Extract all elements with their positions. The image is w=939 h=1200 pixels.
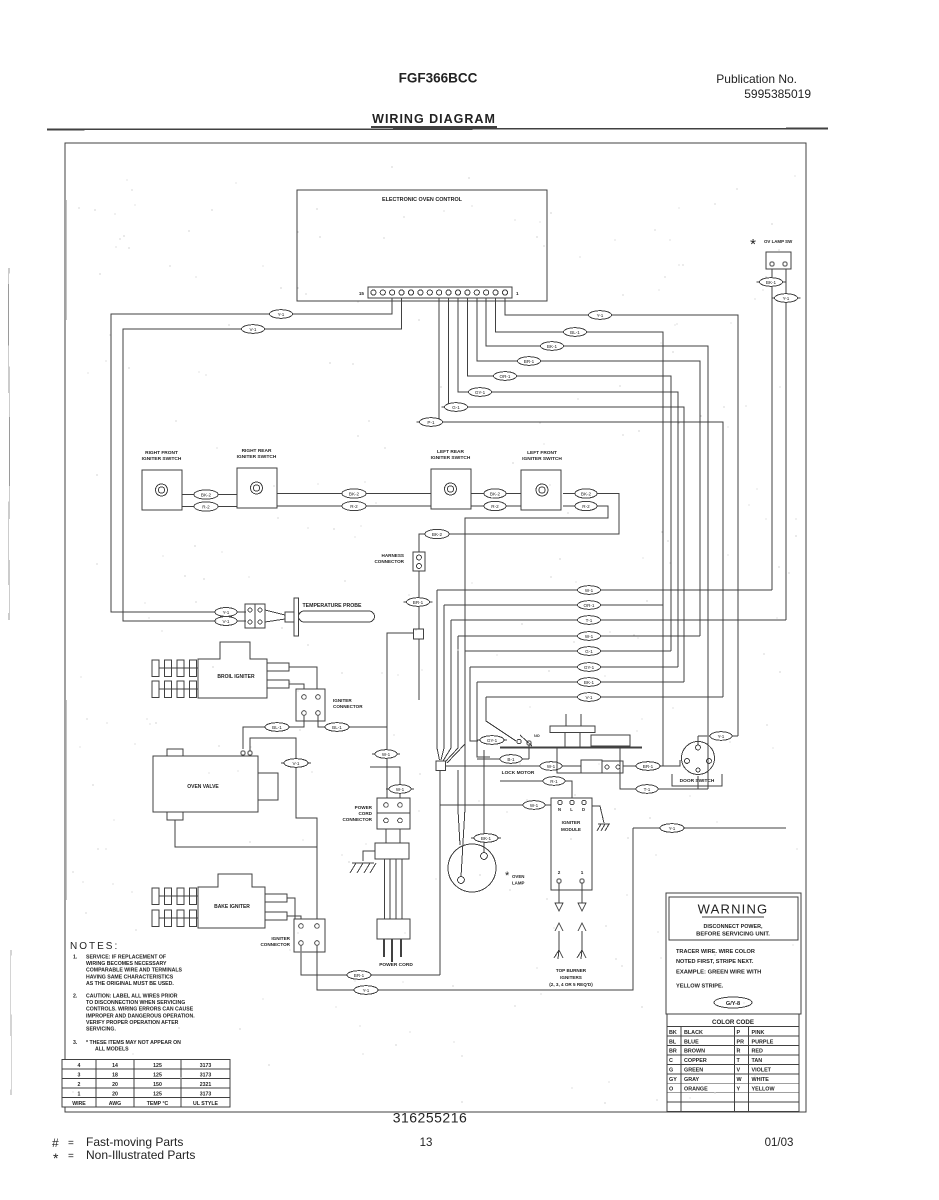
wire V-1 ladder run: [486, 696, 723, 698]
wire label G-1: [575, 647, 604, 656]
svg-text:GY-1: GY-1: [487, 738, 498, 743]
wire label BK-2: [191, 490, 221, 499]
lock switch NO contact: [517, 734, 540, 746]
svg-text:(2, 3, 4 OR 5 REQ'D): (2, 3, 4 OR 5 REQ'D): [549, 982, 593, 987]
wire W-1 ladder run: [458, 635, 700, 637]
wire W-1 ladder run: [437, 589, 772, 591]
lock motor assembly: [500, 714, 642, 776]
wire label R-2: [191, 502, 221, 511]
wire connector to strain relief: [399, 829, 401, 843]
wire Y-1 bake connector long loop: [317, 828, 633, 990]
svg-text:IGNITER: IGNITER: [333, 698, 352, 703]
wire label Y-1: [267, 310, 296, 319]
wire BR-1 capacitor to door switch: [623, 760, 680, 766]
svg-text:2.: 2.: [73, 994, 78, 1000]
svg-text:5995385019: 5995385019: [744, 87, 811, 101]
wire oven valve to bake igniter connector: [175, 820, 317, 919]
temperature probe assembly: [245, 598, 375, 636]
wire label V-1: [281, 759, 311, 768]
wire BL-1 connector to splice: [318, 715, 387, 727]
wire bake igniter lead2 to connector: [287, 916, 301, 919]
wire Y-1 EOC pin13 to temperature probe: [111, 298, 392, 612]
wire B-1 run: [477, 758, 529, 760]
wire label BR-1: [515, 357, 544, 366]
wire label BL-1: [262, 723, 292, 732]
EOC terminal strip P1 pins 15..1: [359, 287, 519, 298]
wire label R-2: [481, 501, 509, 510]
svg-text:BLACK: BLACK: [684, 1030, 703, 1036]
svg-text:L: L: [570, 807, 573, 812]
svg-text:3.: 3.: [73, 1040, 78, 1046]
svg-text:VERIFY PROPER OPERATION AFT: VERIFY PROPER OPERATION AFTER: [86, 1020, 179, 1026]
wire door switch bottom pin down: [697, 776, 699, 789]
wire label Y-1: [212, 608, 240, 617]
wire T-1 ladder run: [451, 619, 786, 621]
svg-text:OVEN: OVEN: [512, 874, 524, 879]
svg-text:AWG: AWG: [109, 1101, 121, 1107]
wire label G-1: [442, 403, 471, 412]
svg-text:IGNITER SWITCH: IGNITER SWITCH: [237, 454, 277, 460]
wire label BR-1: [344, 971, 374, 980]
wire label Y-1: [586, 311, 615, 320]
svg-text:OV LAMP SW: OV LAMP SW: [764, 239, 793, 244]
svg-text:BL-1: BL-1: [570, 330, 580, 335]
svg-text:NOTED FIRST, STRIPE NEXT.: NOTED FIRST, STRIPE NEXT.: [676, 959, 754, 965]
svg-text:BAKE IGNITER: BAKE IGNITER: [214, 904, 250, 910]
svg-text:EXAMPLE: GREEN WIRE WITH: EXAMPLE: GREEN WIRE WITH: [676, 970, 761, 976]
svg-text:Y-1: Y-1: [597, 313, 604, 318]
igniter connector (broil): [296, 689, 363, 721]
svg-text:V-1: V-1: [586, 695, 593, 700]
wire BK-1 lamp switch left pin down: [771, 269, 773, 590]
footer legend: [52, 1135, 195, 1166]
wire R-2 LF switch loop down: [465, 506, 608, 744]
igniter module: [551, 798, 592, 890]
svg-text:W-1: W-1: [585, 634, 594, 639]
svg-text:BR-1: BR-1: [524, 359, 535, 364]
svg-text:G/Y-8: G/Y-8: [726, 1001, 740, 1007]
svg-text:W-1: W-1: [585, 588, 594, 593]
svg-text:BK: BK: [669, 1030, 677, 1036]
wire R-2 LR to LF switch: [471, 505, 521, 507]
wire label Y-1: [657, 824, 687, 833]
wire BK-2 LR to LF switch: [471, 493, 521, 495]
svg-text:BR-1: BR-1: [413, 600, 424, 605]
svg-text:V: V: [737, 1068, 741, 1074]
svg-text:SERVICING.: SERVICING.: [86, 1027, 116, 1033]
harness connector: [374, 552, 425, 571]
wire BK-2 into harness connector: [419, 534, 425, 552]
wire ladder2 down to junction: [441, 605, 444, 760]
wire splice down: [418, 639, 420, 700]
warning box: [666, 893, 801, 1014]
wire broil igniter lead to connector: [289, 667, 317, 689]
svg-text:COMPARABLE WIRE AND TERMINA: COMPARABLE WIRE AND TERMINALS: [86, 968, 183, 974]
wire label BK-2: [422, 529, 452, 538]
svg-text:R: R: [737, 1049, 741, 1055]
wire bake igniter lead to connector: [287, 898, 295, 919]
wire B-1 ladder down: [477, 682, 490, 757]
svg-text:3173: 3173: [200, 1063, 212, 1069]
svg-text:POWER CORD: POWER CORD: [379, 962, 413, 968]
wire Y-1 door switch to t1 drop: [698, 735, 738, 737]
svg-text:OR-1: OR-1: [500, 374, 511, 379]
svg-text:IMPROPER AND DANGEROUS OPER: IMPROPER AND DANGEROUS OPERATION.: [86, 1013, 195, 1019]
wire ladder8 to lock switch: [486, 697, 516, 741]
wire label BK-2: [572, 489, 600, 498]
power cord connector: [342, 798, 410, 829]
svg-text:*: *: [750, 236, 756, 253]
wire label W-1: [386, 785, 414, 794]
svg-text:Y-1: Y-1: [278, 312, 285, 317]
svg-text:TAN: TAN: [752, 1058, 763, 1064]
ground at power cord: [350, 851, 376, 873]
svg-text:OVEN VALVE: OVEN VALVE: [187, 784, 219, 790]
wire label BK-1: [471, 834, 501, 843]
svg-text:ALL MODELS: ALL MODELS: [95, 1047, 129, 1053]
wire BL-1 connector to oven valve: [243, 715, 304, 749]
svg-text:DOOR SWITCH: DOOR SWITCH: [680, 778, 715, 784]
svg-text:BL-1: BL-1: [332, 725, 342, 730]
wire label V-1: [575, 693, 604, 702]
svg-text:1.: 1.: [73, 955, 78, 961]
svg-text:G-1: G-1: [585, 649, 593, 654]
svg-text:3173: 3173: [200, 1091, 212, 1097]
svg-text:Y-1: Y-1: [223, 610, 230, 615]
svg-text:C: C: [669, 1058, 673, 1064]
wire R-1 lock motor to module L: [500, 781, 572, 798]
power cord strain relief: [375, 843, 409, 859]
svg-text:GREEN: GREEN: [684, 1068, 703, 1074]
svg-text:YELLOW STRIPE.: YELLOW STRIPE.: [676, 984, 724, 990]
svg-text:Publication No.: Publication No.: [716, 72, 797, 86]
wire OR-1 EOC pin5 fan-out: [467, 298, 671, 651]
svg-text:IGNITER SWITCH: IGNITER SWITCH: [522, 456, 562, 462]
left rear igniter switch: [431, 449, 471, 509]
wire Y-1 loop to lamp switch: [633, 827, 786, 829]
svg-text:BROIL IGNITER: BROIL IGNITER: [217, 674, 255, 680]
svg-text:3173: 3173: [200, 1072, 212, 1078]
svg-text:W-1: W-1: [547, 764, 556, 769]
svg-text:BL-1: BL-1: [272, 725, 282, 730]
oven valve: [153, 749, 278, 820]
svg-text:2: 2: [558, 870, 561, 875]
notes text block: [70, 941, 195, 1053]
svg-text:BR-1: BR-1: [643, 764, 654, 769]
svg-text:BK-2: BK-2: [349, 491, 360, 496]
svg-text:V-1: V-1: [293, 761, 300, 766]
svg-text:V-1: V-1: [223, 619, 230, 624]
svg-text:01/03: 01/03: [765, 1137, 794, 1149]
oven lamp: [448, 844, 525, 892]
spark output electrode 582: [577, 883, 586, 959]
wire BK-2 RF to RR switch: [182, 494, 237, 496]
wire label W-1: [520, 801, 548, 810]
svg-text:DISCONNECT POWER,: DISCONNECT POWER,: [704, 924, 764, 930]
scan streak artifacts (decorative): [8, 268, 9, 620]
wire label BK-1: [757, 278, 786, 287]
wire ladder4 down to junction: [445, 636, 458, 762]
wire label W-1: [575, 586, 604, 595]
svg-text:Y-1: Y-1: [669, 826, 676, 831]
svg-text:COLOR CODE: COLOR CODE: [712, 1019, 754, 1026]
svg-text:POWER: POWER: [355, 805, 373, 810]
wire Y-1 EOC pin1 fan-out: [505, 298, 738, 736]
wire connector to strain relief 2: [385, 829, 387, 843]
svg-text:GY-1: GY-1: [475, 390, 486, 395]
spark output electrode 559: [554, 883, 563, 959]
svg-text:BR: BR: [669, 1049, 677, 1055]
wire label P-1: [417, 418, 446, 427]
wire label T-1: [633, 785, 661, 794]
svg-text:B-1: B-1: [507, 757, 515, 762]
svg-text:CONTROLS. WIRING ERRORS C: CONTROLS. WIRING ERRORS CAN CAUSE: [86, 1007, 194, 1013]
svg-text:Y-1: Y-1: [783, 296, 790, 301]
right front igniter switch: [142, 450, 182, 510]
splice junction square: [436, 761, 446, 771]
oven lamp switch OV LAMP SW: [750, 236, 793, 269]
svg-text:TEMP °C: TEMP °C: [147, 1101, 169, 1107]
wire label W-1: [537, 762, 565, 771]
svg-text:20: 20: [112, 1082, 118, 1088]
svg-text:=: =: [68, 1138, 74, 1149]
svg-text:Y-1: Y-1: [718, 734, 725, 739]
svg-text:AS THE ORIGINAL MUST BE U: AS THE ORIGINAL MUST BE USED.: [86, 981, 174, 987]
svg-text:P: P: [737, 1030, 741, 1036]
svg-text:PR: PR: [737, 1039, 745, 1045]
wire label Y-1: [707, 732, 735, 741]
wire BR-1 bake connector to junction: [301, 945, 440, 975]
wire label W-1: [372, 750, 400, 759]
wire label R-2: [572, 501, 600, 510]
svg-text:RIGHT FRONT: RIGHT FRONT: [145, 450, 178, 456]
svg-text:COPPER: COPPER: [684, 1058, 707, 1064]
svg-text:PINK: PINK: [752, 1030, 765, 1036]
svg-text:14: 14: [112, 1063, 118, 1069]
svg-text:13: 13: [420, 1137, 433, 1149]
svg-text:PURPLE: PURPLE: [752, 1039, 774, 1045]
wire R-2 RF to RR switch: [182, 506, 237, 508]
svg-text:BR-1: BR-1: [354, 973, 365, 978]
svg-text:TRACER WIRE. WIRE COLOR: TRACER WIRE. WIRE COLOR: [676, 949, 755, 955]
svg-text:IGNITERS: IGNITERS: [560, 975, 582, 980]
wire V-1 oven valve loop: [250, 738, 317, 847]
wire GY-1 ladder down: [470, 667, 478, 741]
right rear igniter switch: [237, 448, 277, 508]
wire BR-1 harness connector down: [418, 571, 420, 629]
svg-text:BK-2: BK-2: [201, 492, 212, 497]
wire switch to B-1 run: [528, 745, 530, 759]
svg-text:N: N: [558, 807, 561, 812]
svg-text:15: 15: [359, 291, 365, 296]
svg-text:ELECTRONIC OVEN CONTROL: ELECTRONIC OVEN CONTROL: [382, 197, 463, 203]
svg-text:O: O: [669, 1087, 673, 1093]
svg-text:IGNITER SWITCH: IGNITER SWITCH: [142, 456, 182, 462]
svg-text:BLUE: BLUE: [684, 1039, 699, 1045]
power cord plug: [377, 919, 413, 968]
svg-text:W-1: W-1: [382, 752, 391, 757]
svg-text:TOP BURNER: TOP BURNER: [556, 968, 587, 973]
header rule: [47, 129, 828, 130]
wire label GY-1: [575, 663, 604, 672]
svg-text:CONNECTOR: CONNECTOR: [333, 704, 363, 709]
wire ladder3 down to junction: [443, 620, 451, 761]
wire W-1 splice to power cord connector: [387, 633, 414, 805]
color code table: [667, 1014, 799, 1112]
svg-text:R-2: R-2: [491, 504, 499, 509]
svg-text:BK-1: BK-1: [766, 280, 777, 285]
wire BK-1 ladder run: [477, 681, 684, 683]
svg-text:Y: Y: [737, 1087, 741, 1093]
svg-text:LOCK MOTOR: LOCK MOTOR: [502, 770, 535, 776]
wire BK-1 lamp up: [483, 750, 485, 853]
wire Y-1 lamp switch right pin down: [785, 269, 787, 620]
svg-text:BK-2: BK-2: [490, 491, 501, 496]
svg-text:2: 2: [78, 1082, 81, 1088]
wire R-2 to oven lamp: [461, 744, 465, 877]
wire label OR-1: [491, 372, 520, 381]
door switch: [672, 742, 722, 787]
splice junction block: [414, 629, 424, 639]
svg-text:NOTES:: NOTES:: [70, 941, 119, 952]
svg-text:1: 1: [78, 1091, 81, 1097]
svg-text:ORANGE: ORANGE: [684, 1087, 708, 1093]
svg-text:BK-1: BK-1: [584, 680, 595, 685]
svg-text:3: 3: [78, 1072, 81, 1078]
svg-text:HAVING SAME CHARACTERISTICS: HAVING SAME CHARACTERISTICS: [86, 974, 174, 980]
svg-text:1: 1: [581, 870, 584, 875]
ground at igniter module: [592, 806, 610, 831]
svg-text:2321: 2321: [200, 1082, 212, 1088]
svg-text:#: #: [52, 1136, 59, 1150]
svg-text:BL: BL: [669, 1039, 677, 1045]
svg-text:LEFT REAR: LEFT REAR: [437, 449, 464, 455]
svg-text:RED: RED: [752, 1049, 763, 1055]
svg-text:125: 125: [153, 1091, 162, 1097]
svg-text:18: 18: [112, 1072, 118, 1078]
svg-text:BK-1: BK-1: [481, 836, 492, 841]
svg-text:1: 1: [516, 291, 519, 296]
svg-text:LEFT FRONT: LEFT FRONT: [527, 450, 557, 456]
wire W-1 junction to capacitor: [446, 765, 582, 767]
svg-text:V-1: V-1: [250, 327, 257, 332]
svg-text:Y-1: Y-1: [363, 988, 370, 993]
wire BK-2 LF switch to harness connector: [450, 494, 619, 535]
svg-text:MODULE: MODULE: [561, 827, 581, 832]
wire label BK-1: [575, 678, 604, 687]
wire P-1 EOC pin8 fan-out: [439, 298, 723, 697]
svg-text:* THESE ITEMS MAY NOT APP: * THESE ITEMS MAY NOT APPEAR ON: [86, 1040, 181, 1046]
lock motor capacitor: [581, 760, 623, 773]
wire label BK-2: [481, 489, 509, 498]
svg-text:*: *: [53, 1150, 59, 1166]
svg-text:RIGHT REAR: RIGHT REAR: [242, 448, 272, 454]
svg-text:VIOLET: VIOLET: [752, 1068, 772, 1074]
wire label R-1: [540, 777, 568, 786]
svg-text:GY-1: GY-1: [584, 665, 595, 670]
svg-text:WARNING: WARNING: [698, 902, 769, 917]
wire gauge table: [62, 1060, 230, 1108]
svg-text:HARNESS: HARNESS: [382, 553, 404, 558]
svg-text:IGNITER: IGNITER: [562, 820, 581, 825]
svg-text:Fast-moving Parts: Fast-moving Parts: [86, 1135, 183, 1149]
svg-text:UL STYLE: UL STYLE: [193, 1101, 219, 1107]
svg-text:WHITE: WHITE: [752, 1077, 770, 1083]
wire label B-1: [497, 755, 525, 764]
svg-text:IGNITER SWITCH: IGNITER SWITCH: [431, 455, 471, 461]
wire label V-1: [212, 617, 240, 626]
svg-text:FGF366BCC: FGF366BCC: [399, 71, 478, 86]
svg-text:R-1: R-1: [550, 779, 558, 784]
svg-text:BK-2: BK-2: [581, 491, 592, 496]
wire door switch top pin: [697, 736, 699, 745]
left front igniter switch: [521, 450, 562, 510]
svg-text:*: *: [505, 870, 510, 882]
svg-text:BK-2: BK-2: [432, 532, 443, 537]
igniter connector (bake): [260, 919, 325, 952]
wire R-2 into junction: [447, 744, 465, 763]
wire label OR-1: [575, 601, 604, 610]
svg-text:125: 125: [153, 1063, 162, 1069]
wire ladder1 down to junction: [437, 590, 440, 760]
svg-text:CAUTION: LABEL ALL WIRES: CAUTION: LABEL ALL WIRES PRIOR: [86, 994, 178, 1000]
wire label T-1: [575, 616, 604, 625]
svg-text:150: 150: [153, 1082, 162, 1088]
wire label BL-1: [322, 723, 352, 732]
svg-text:125: 125: [153, 1072, 162, 1078]
wire BR-1 junction down: [439, 771, 441, 976]
wire label BL-1: [561, 328, 590, 337]
wire label V-1: [239, 325, 268, 334]
svg-text:TEMPERATURE PROBE: TEMPERATURE PROBE: [303, 603, 363, 609]
svg-text:SERVICE: IF REPLACEMENT OF: SERVICE: IF REPLACEMENT OF: [86, 955, 166, 961]
wire label Y-1: [772, 294, 801, 303]
publication number: [716, 72, 811, 101]
wire W-1 right pin up: [370, 767, 400, 798]
svg-text:CORD: CORD: [358, 811, 372, 816]
wire BR-1 EOC pin4 fan-out: [477, 298, 700, 636]
svg-text:=: =: [68, 1151, 74, 1162]
wire broil igniter lead2 to connector: [289, 684, 304, 689]
svg-text:BROWN: BROWN: [684, 1049, 705, 1055]
wire G-1 ladder run: [465, 650, 671, 652]
svg-text:W-1: W-1: [396, 787, 405, 792]
wire BK-1 EOC pin3 fan-out: [486, 298, 708, 789]
wire label BK-2: [339, 489, 369, 498]
wire G-1 EOC pin7 fan-out: [449, 298, 684, 682]
svg-text:CONNECTOR: CONNECTOR: [260, 942, 290, 947]
wire label W-1: [575, 632, 604, 641]
wire label GY-1: [477, 736, 507, 745]
svg-text:R-2: R-2: [202, 504, 210, 509]
wire label GY-1: [466, 388, 495, 397]
svg-text:CONNECTOR: CONNECTOR: [342, 817, 372, 822]
broil igniter: [152, 642, 289, 698]
svg-text:R-2: R-2: [582, 504, 590, 509]
wire GY-1 ladder run: [470, 666, 678, 668]
svg-text:R-2: R-2: [350, 504, 358, 509]
wire W-1 branch to module: [440, 804, 551, 806]
svg-text:OR-1: OR-1: [584, 603, 595, 608]
wire BL-1 EOC pin2 fan-out: [496, 298, 663, 766]
bake igniter: [152, 874, 287, 928]
svg-text:GY: GY: [669, 1077, 677, 1083]
wire BK-2 RR to LR switch: [277, 493, 431, 495]
svg-text:TO DISCONNECTION WHEN SERVI: TO DISCONNECTION WHEN SERVICING: [86, 1000, 185, 1006]
svg-text:GRAY: GRAY: [684, 1077, 699, 1083]
wire label BR-1: [404, 598, 433, 607]
svg-text:BEFORE SERVICING UNIT.: BEFORE SERVICING UNIT.: [696, 932, 770, 938]
